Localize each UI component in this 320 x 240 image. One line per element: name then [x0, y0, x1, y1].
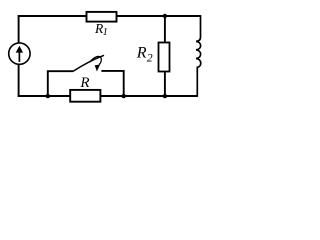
node dot top (R2 branch / top rail) [163, 14, 167, 18]
node dot switch-branch left [46, 94, 50, 98]
inductor L1 (right branch with coil) [196, 15, 201, 97]
resistor R2 body [159, 43, 170, 72]
wire top rail [18, 15, 201, 17]
wire switch right stub [101, 71, 123, 97]
node dot switch-branch right [122, 94, 126, 98]
wire left rail upper [18, 15, 20, 43]
current source arrow shaft [18, 51, 20, 62]
current source U1 circle [9, 43, 30, 64]
svg-text:1: 1 [103, 27, 108, 38]
wire left rail lower [18, 64, 20, 97]
wire bottom rail [18, 95, 198, 97]
current source arrowhead [16, 46, 23, 53]
wire R2 branch vertical [164, 15, 166, 97]
switch S closing-arrow arc [90, 56, 102, 64]
svg-text:R: R [79, 75, 89, 91]
resistor R body (bottom, shorted by switch) [70, 90, 100, 102]
node dot bottom (R2 branch / bottom rail) [163, 94, 167, 98]
resistor R1 body [87, 12, 117, 22]
switch S arrowhead [95, 65, 100, 72]
switch S blade [73, 55, 104, 71]
svg-text:2: 2 [147, 50, 153, 64]
svg-text:R: R [136, 44, 147, 61]
wire switch left stub [48, 71, 73, 97]
